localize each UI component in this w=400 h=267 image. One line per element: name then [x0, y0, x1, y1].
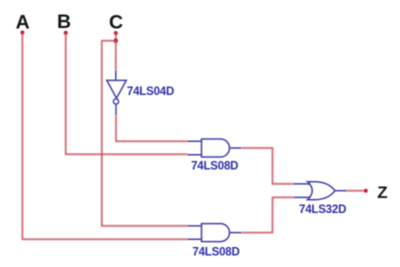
OR U4 input pin stubs [294, 184, 311, 198]
svg-text:B: B [57, 11, 71, 33]
wire AND1 output to OR upper input [242, 148, 294, 184]
terminal dot Z [364, 189, 368, 193]
OR gate U4 74LS32D body [308, 182, 336, 200]
wire B (vertical then horizontal to AND1 lower input) [66, 33, 188, 154]
AND2 U3 output pin stub [230, 232, 242, 234]
terminal dot B [64, 31, 68, 35]
node junction on C [114, 39, 118, 43]
svg-text:74LS08D: 74LS08D [192, 247, 239, 259]
AND2 U3 input pin stubs [188, 226, 202, 239]
AND1 U2 input pin stubs [188, 141, 202, 154]
terminal dot A [20, 31, 24, 35]
inverter U1 bubble [113, 99, 118, 104]
OR U4 output pin stub [335, 190, 347, 192]
svg-text:C: C [109, 11, 123, 33]
wire inverter output to AND1 upper input [116, 115, 188, 141]
AND gate U3 74LS08D body (bottom) [202, 224, 230, 242]
inverter U1 input pin stub [115, 71, 117, 81]
terminal dot C [114, 31, 118, 35]
wire C branch (left, down, to AND2 upper input) [102, 41, 188, 226]
svg-text:74LS04D: 74LS04D [127, 86, 174, 98]
wire C to inverter input [115, 41, 117, 71]
svg-text:A: A [16, 11, 30, 33]
AND1 U2 output pin stub [230, 147, 242, 149]
svg-text:Z: Z [377, 183, 387, 202]
wire AND2 output to OR lower input [242, 197, 294, 232]
svg-text:74LS08D: 74LS08D [191, 161, 238, 173]
inverter U1 output pin stub [115, 104, 117, 115]
svg-text:74LS32D: 74LS32D [299, 204, 346, 216]
inverter U1 74LS04D triangle [107, 80, 127, 98]
wire OR output to Z terminal [347, 190, 365, 192]
AND gate U2 74LS08D body (top) [202, 139, 230, 157]
wire C down to junction [115, 33, 117, 41]
wire A (vertical then bottom horizontal to AND2 lower input) [22, 33, 187, 239]
